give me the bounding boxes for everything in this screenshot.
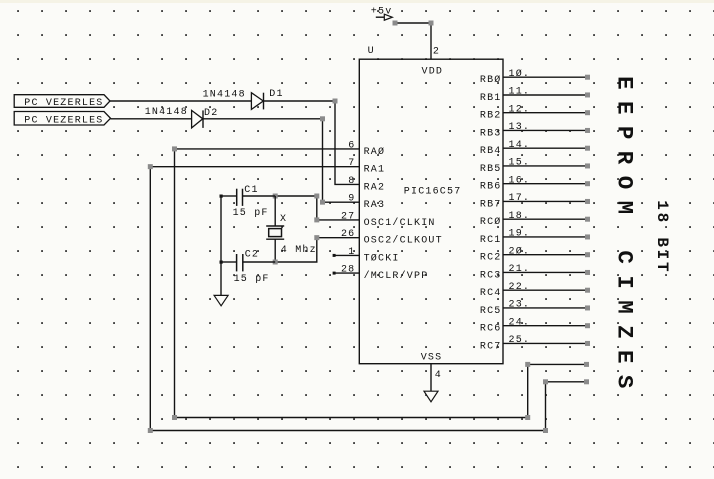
wire: crystal top to C1 — [243, 195, 276, 197]
svg-text:TØCKI: TØCKI — [364, 252, 400, 264]
svg-text:4 Mhz: 4 Mhz — [281, 244, 317, 256]
svg-text:RAØ: RAØ — [364, 146, 386, 158]
svg-text:18.: 18. — [509, 211, 531, 222]
svg-text:/MCLR/VPP: /MCLR/VPP — [364, 270, 429, 282]
pin 24 (RC6) wire to EEPROM bus — [480, 317, 590, 334]
svg-text:RB1: RB1 — [480, 93, 502, 104]
pin 16 (RB6) wire to EEPROM bus — [480, 175, 590, 192]
junction — [148, 164, 153, 169]
svg-text:2Ø.: 2Ø. — [509, 245, 531, 257]
wire: crystal bottom to C2 — [243, 261, 275, 263]
pin 19 (RC1) wire to EEPROM bus — [480, 229, 590, 246]
wire: flag1 to D1 anode — [110, 100, 251, 102]
pin 1 (T0CKI) — [333, 247, 400, 265]
junction — [148, 428, 153, 433]
svg-text:RA2: RA2 — [364, 182, 386, 193]
wire: RA0 pin 6 loop to bus (inner) — [175, 149, 587, 418]
svg-text:RC2: RC2 — [480, 253, 502, 264]
pin 27 (OSC1/CLKIN) — [341, 211, 436, 229]
svg-text:RC1: RC1 — [480, 235, 502, 246]
junction — [543, 379, 548, 384]
svg-text:15.: 15. — [509, 158, 531, 169]
svg-text:15 pF: 15 pF — [233, 208, 269, 219]
svg-text:D2: D2 — [204, 108, 218, 119]
svg-text:RA1: RA1 — [364, 165, 386, 176]
svg-text:16.: 16. — [509, 175, 531, 186]
svg-text:1N4148: 1N4148 — [145, 107, 188, 118]
wire: +5V to VDD pin 2 — [395, 23, 431, 59]
svg-text:RB5: RB5 — [480, 164, 502, 175]
junction — [172, 146, 177, 151]
junction at RA3 corner — [320, 200, 325, 205]
power symbol +5V — [371, 7, 393, 21]
svg-text:PC VEZERLES: PC VEZERLES — [24, 98, 103, 109]
svg-text:C2: C2 — [245, 250, 259, 261]
wire: C1 to ground rail — [221, 195, 237, 197]
pin 15 (RB5) wire to EEPROM bus — [480, 158, 590, 175]
svg-text:C1: C1 — [244, 185, 258, 196]
pin 20 (RC2) wire to EEPROM bus — [480, 245, 590, 263]
junction — [543, 428, 548, 433]
junction at D1 corner — [333, 99, 338, 104]
wire: flag2 to D2 anode — [111, 118, 192, 120]
pin 8 (RA2) — [348, 176, 385, 194]
svg-text:21.: 21. — [509, 264, 531, 275]
svg-text:RC5: RC5 — [480, 306, 502, 317]
junction — [314, 194, 319, 199]
svg-text:OSC2/CLKOUT: OSC2/CLKOUT — [364, 235, 443, 247]
svg-text:26: 26 — [341, 229, 355, 240]
diode D2 — [192, 110, 203, 128]
junction at +5V symbol — [393, 21, 398, 26]
op IC U1 PIC16C57 body — [359, 59, 503, 364]
junction — [314, 217, 319, 222]
svg-text:25.: 25. — [509, 335, 531, 346]
junction at crystal top — [273, 194, 278, 199]
svg-text:X: X — [280, 214, 287, 225]
svg-text:14.: 14. — [509, 140, 531, 151]
svg-text:RC3: RC3 — [480, 270, 502, 281]
wire: VSS pin 4 — [431, 364, 442, 392]
svg-text:19.: 19. — [509, 229, 531, 240]
junction — [584, 362, 589, 367]
junction dot — [220, 195, 223, 198]
svg-text:28: 28 — [341, 265, 355, 276]
svg-text:U: U — [368, 46, 375, 57]
pin 23 (RC5) wire to EEPROM bus — [480, 300, 590, 317]
svg-text:6: 6 — [348, 140, 355, 151]
svg-text:24.: 24. — [509, 317, 531, 328]
svg-text:VDD: VDD — [422, 67, 444, 78]
junction at pin 2 corner — [429, 21, 434, 26]
junction dot — [220, 261, 223, 264]
svg-text:PIC16C57: PIC16C57 — [404, 186, 462, 197]
junction — [172, 415, 177, 420]
svg-text:RB4: RB4 — [480, 146, 502, 157]
wire: D2 cathode to RA3 pin 9 — [203, 119, 359, 202]
wire: ground rail vertical — [220, 196, 222, 295]
svg-text:23.: 23. — [509, 300, 531, 311]
svg-text:OSC1/CLKIN: OSC1/CLKIN — [364, 217, 436, 229]
svg-text:9: 9 — [348, 194, 355, 205]
pin 13 (RB3) wire to EEPROM bus — [480, 122, 590, 139]
svg-text:27: 27 — [341, 211, 355, 222]
svg-text:11.: 11. — [509, 87, 531, 98]
net flag PC VEZERLES (lower) — [14, 112, 110, 127]
svg-text:1: 1 — [348, 247, 355, 258]
pin 17 (RB7) wire to EEPROM bus — [480, 193, 590, 210]
svg-text:12.: 12. — [509, 104, 531, 115]
svg-text:VSS: VSS — [421, 353, 443, 364]
pin 7 (RA1) — [348, 158, 385, 176]
junction — [525, 362, 530, 367]
svg-text:RB7: RB7 — [480, 199, 502, 210]
svg-text:EEPROM CIMZES: EEPROM CIMZES — [612, 76, 638, 400]
wire: C2 to ground rail — [221, 261, 237, 263]
junction — [584, 379, 589, 384]
pin 25 (RC7) wire to EEPROM bus — [480, 335, 590, 352]
wire: OSC2 pin 26 to crystal bottom — [275, 238, 359, 262]
diode D1 — [251, 93, 263, 110]
svg-text:RB6: RB6 — [480, 182, 502, 193]
capacitor C1 — [237, 189, 243, 206]
pin 18 (RC0) wire to EEPROM bus — [480, 211, 590, 228]
svg-text:PC VEZERLES: PC VEZERLES — [24, 115, 103, 126]
pin 9 (RA3) — [348, 194, 385, 212]
pin 12 (RB2) wire to EEPROM bus — [480, 104, 590, 121]
pin 22 (RC4) wire to EEPROM bus — [480, 282, 590, 299]
pin 28 (/MCLR/VPP) — [333, 265, 429, 283]
pin 14 (RB4) wire to EEPROM bus — [480, 140, 590, 157]
pin 6 (RA0) — [348, 140, 385, 158]
svg-text:1Ø.: 1Ø. — [509, 68, 531, 80]
wire: OSC1 pin 27 to crystal top — [275, 196, 359, 220]
svg-text:RCØ: RCØ — [480, 216, 502, 228]
svg-text:22.: 22. — [509, 282, 531, 293]
svg-text:RBØ: RBØ — [480, 74, 502, 86]
svg-text:RC4: RC4 — [480, 288, 502, 299]
wire: RA1 pin 7 loop to bus (outer) — [150, 167, 586, 431]
svg-text:RC7: RC7 — [480, 341, 502, 352]
net flag PC VEZERLES (upper) — [14, 95, 110, 110]
svg-text:RA3: RA3 — [364, 200, 386, 211]
svg-text:RB3: RB3 — [480, 128, 502, 139]
ground symbol at crystal caps — [214, 295, 228, 305]
pin 10 (RB0) wire to EEPROM bus — [480, 68, 590, 86]
svg-text:2: 2 — [433, 46, 440, 57]
svg-text:17.: 17. — [509, 193, 531, 204]
svg-text:18 BIT: 18 BIT — [653, 200, 671, 274]
svg-text:4: 4 — [435, 370, 442, 381]
pin 21 (RC3) wire to EEPROM bus — [480, 264, 590, 281]
ground symbol at VSS — [424, 391, 438, 402]
pin 26 (OSC2/CLKOUT) — [341, 229, 443, 247]
svg-text:RC6: RC6 — [480, 324, 502, 335]
junction — [525, 415, 530, 420]
svg-text:D1: D1 — [269, 89, 283, 100]
svg-text:13.: 13. — [509, 122, 531, 133]
junction — [314, 235, 319, 240]
pin 11 (RB1) wire to EEPROM bus — [480, 87, 590, 104]
junction at crystal bottom — [273, 260, 278, 265]
junction at D2 corner — [320, 116, 325, 121]
svg-text:RB2: RB2 — [480, 111, 502, 122]
svg-text:7: 7 — [348, 158, 355, 169]
svg-text:8: 8 — [348, 176, 355, 187]
crystal X1 — [266, 196, 284, 262]
wire: D1 cathode to RA2 pin 8 — [264, 101, 360, 184]
svg-text:15 pF: 15 pF — [234, 274, 270, 285]
capacitor C2 — [237, 254, 243, 271]
svg-text:1N4148: 1N4148 — [203, 90, 246, 101]
